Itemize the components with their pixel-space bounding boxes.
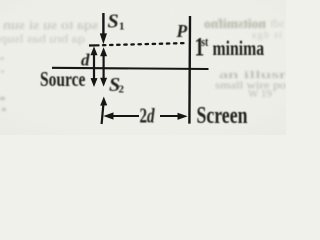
svg-text:P: P [176, 21, 188, 41]
svg-text:minima: minima [213, 37, 265, 61]
dotted line from S1 to screen [89, 44, 100, 46]
svg-text:d: d [81, 51, 90, 70]
d dimension arrow (left, double headed) [93, 50, 95, 82]
2d dimension arrow [112, 115, 139, 117]
svg-text:Source: Source [40, 68, 85, 91]
faint adjacent-column text right side [215, 69, 287, 100]
screen line [188, 16, 191, 124]
svg-text:sdt: sdt [269, 16, 284, 30]
svg-text:W 19: W 19 [248, 88, 272, 100]
svg-text:S: S [108, 10, 119, 32]
svg-text:st: st [201, 36, 208, 50]
svg-text:2d: 2d [140, 104, 156, 127]
svg-text:Screen: Screen [197, 101, 248, 128]
1st minima label [195, 33, 265, 61]
S1 arrow (down) [102, 13, 104, 34]
paper background [0, 0, 286, 135]
faint specks left edge [0, 57, 6, 111]
wire: central axis line [52, 68, 209, 69]
svg-text:noitsmifno: noitsmifno [204, 16, 266, 31]
faint bleed-through text top-left [0, 18, 98, 46]
diagram [52, 13, 209, 124]
svg-text:qa bru bas lsup: qa bru bas lsup [0, 32, 85, 46]
up arrow below S2 [102, 103, 104, 124]
scan grain [0, 0, 286, 135]
svg-text:1: 1 [119, 20, 125, 32]
S1-S2 double arrow (right) [102, 51, 104, 81]
vignette [0, 0, 286, 135]
svg-text:sqa to su si sun: sqa to su si sun [2, 18, 98, 32]
svg-text:2: 2 [119, 84, 125, 96]
faint bleed-through text top-right (mirrored) [204, 16, 284, 41]
